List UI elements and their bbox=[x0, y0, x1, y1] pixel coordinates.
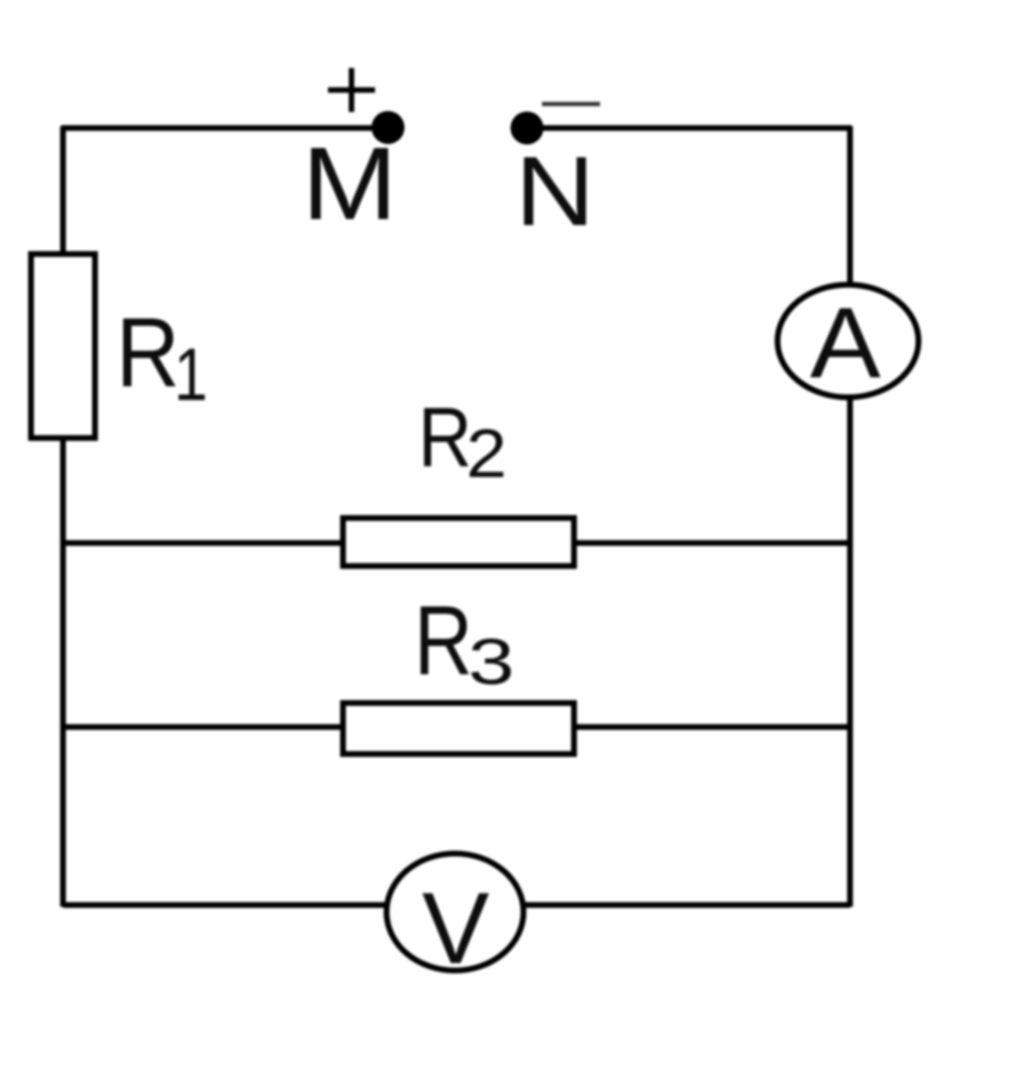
wire right vertical lower bbox=[847, 398, 853, 907]
svg-text:1: 1 bbox=[174, 333, 208, 416]
resistor R3 bbox=[343, 703, 574, 754]
svg-text:M: M bbox=[302, 126, 398, 241]
resistor R1 bbox=[31, 254, 95, 438]
svg-text:R: R bbox=[116, 297, 180, 407]
ammeter A bbox=[778, 285, 919, 398]
wire R2 rail left bbox=[63, 540, 343, 546]
wire R3 rail right bbox=[574, 724, 850, 730]
svg-text:R: R bbox=[418, 390, 472, 484]
voltmeter V bbox=[387, 854, 524, 971]
wire bottom right horizontal bbox=[522, 902, 850, 908]
minus terminal mark bbox=[542, 102, 600, 106]
wire R3 rail left bbox=[63, 724, 343, 730]
svg-text:A: A bbox=[810, 287, 881, 399]
wire left vertical lower bbox=[60, 440, 66, 907]
wire top left horizontal bbox=[61, 125, 388, 131]
wire top right horizontal bbox=[527, 125, 852, 131]
wire left vertical upper bbox=[60, 126, 66, 254]
svg-text:V: V bbox=[422, 873, 489, 985]
node N dot bbox=[511, 112, 544, 145]
wire bottom left horizontal bbox=[63, 902, 388, 908]
plus terminal mark bbox=[328, 68, 375, 112]
wire right vertical upper bbox=[847, 126, 853, 286]
svg-text:3: 3 bbox=[468, 625, 515, 698]
svg-text:2: 2 bbox=[466, 415, 507, 492]
node M dot bbox=[372, 111, 405, 144]
resistor R2 bbox=[343, 518, 574, 566]
svg-text:N: N bbox=[515, 136, 595, 246]
wire R2 rail right bbox=[574, 540, 850, 546]
svg-text:R: R bbox=[414, 585, 473, 695]
